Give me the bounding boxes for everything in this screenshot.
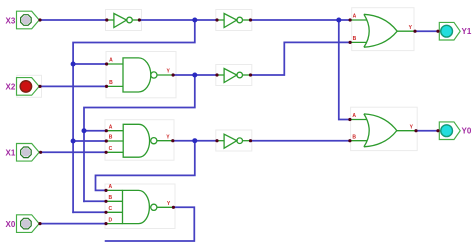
pin dot NAND2 B (105, 139, 108, 142)
wire NAND2 output to NOT4 input through node J4 (173, 140, 217, 142)
wire node J1 down-loop to vertical V1 (73, 20, 195, 64)
pin dot OR1 B (349, 41, 352, 44)
pin dot NAND3 C (104, 211, 107, 214)
wire V1 branch to NAND3 input C (73, 211, 106, 213)
svg-text:Y1: Y1 (462, 27, 472, 36)
wire NAND3 output loop down-left (106, 207, 195, 241)
wire X0 to NAND3 input D (40, 223, 106, 225)
nand gate NAND2 (3-input) (106, 124, 173, 157)
svg-text:C: C (109, 146, 113, 152)
svg-text:B: B (109, 80, 113, 86)
pin dot NAND3 B (104, 200, 107, 203)
wire vertical V2 (NAND1 signal distribution) (83, 131, 85, 202)
pin dot X3 out (38, 18, 41, 21)
node J3 (336, 18, 341, 23)
pin dot Y1 in (436, 30, 439, 33)
gate bounding box NAND2 (105, 120, 174, 161)
wire V1 branch to NAND2 input B (73, 140, 106, 142)
switch bounding box X2 (17, 75, 42, 97)
inverter NOT2 (217, 14, 251, 28)
pin dot X0 out (38, 222, 41, 225)
gate bounding box NAND3 (105, 184, 175, 229)
svg-text:B: B (353, 36, 357, 42)
svg-text:A: A (353, 14, 357, 20)
wire vertical V1 (NOT1 signal distribution) (72, 64, 74, 212)
svg-text:X1: X1 (6, 149, 16, 158)
svg-text:B: B (108, 195, 112, 201)
pin dot NOT1 in (105, 18, 108, 21)
nand gate NAND3 (4-input) (106, 190, 173, 223)
svg-text:B: B (352, 134, 356, 140)
led Y0 (output) (439, 122, 472, 140)
wire NAND1 output to NOT3 input through node J2 (173, 74, 217, 76)
pin dot OR1 Y (413, 30, 416, 33)
pin dot NOT2 out (249, 18, 252, 21)
wire OR2 output to Y0 (416, 130, 438, 132)
gate bounding box OR2 (351, 107, 418, 150)
node J1 (192, 18, 197, 23)
svg-text:X3: X3 (6, 16, 16, 25)
node J2 (192, 73, 197, 78)
svg-text:A: A (352, 113, 356, 119)
pin dot NAND3 Y (172, 206, 175, 209)
pin dot NAND3 D (104, 222, 107, 225)
svg-text:A: A (108, 184, 112, 190)
gate bounding box NOT3 (216, 65, 252, 86)
pin dot NAND2 Y (171, 139, 174, 142)
gate bounding box NOT2 (216, 10, 252, 31)
pin dot NAND1 Y (172, 73, 175, 76)
wire V2 branch to NAND3 input B (84, 200, 106, 202)
wire V2 branch to NAND2 input A (84, 130, 106, 132)
pin dot NOT1 out (138, 18, 141, 21)
svg-text:X0: X0 (6, 220, 16, 229)
pin dot NAND2 A (105, 129, 108, 132)
svg-text:Y0: Y0 (462, 127, 472, 136)
wire NOT3 output up to OR1 input B (251, 42, 351, 75)
inverter NOT3 (217, 69, 251, 83)
pin dot NAND3 A (104, 189, 107, 192)
pin dot X1 out (39, 151, 42, 154)
switch X3 (input, off) (6, 11, 40, 29)
pin dot NOT4 out (249, 139, 252, 142)
gate bounding box NAND1 (106, 52, 176, 98)
node V1-A junction (71, 62, 76, 67)
inverter NOT4 (217, 134, 251, 148)
inverter NOT1 (107, 14, 140, 28)
svg-text:A: A (109, 124, 113, 130)
svg-text:B: B (109, 135, 113, 141)
gate bounding box NOT4 (216, 130, 252, 151)
svg-text:C: C (108, 206, 112, 212)
wire V1 branch to NAND1 input A (73, 63, 107, 65)
svg-text:A: A (109, 58, 113, 64)
pin dot OR2 Y (414, 129, 417, 132)
wire OR1 output to Y1 (415, 30, 438, 32)
pin dot NOT2 in (215, 18, 218, 21)
pin dot NOT4 in (215, 139, 218, 142)
node V1-B junction (71, 139, 76, 144)
svg-text:D: D (108, 217, 112, 223)
or gate OR2 (350, 114, 416, 147)
nand gate NAND1 (2-input) (107, 58, 174, 92)
switch X0 (input, off) (6, 215, 40, 233)
pin dot OR2 B (348, 139, 351, 142)
svg-text:X2: X2 (6, 83, 16, 92)
wire X1 to NAND2 input C (41, 151, 107, 153)
pin dot OR1 A (349, 18, 352, 21)
pin dot NAND1 B (105, 85, 108, 88)
switch X2 (input, on) (6, 78, 40, 96)
pin dot NOT3 out (249, 73, 252, 76)
or gate OR1 (350, 14, 415, 47)
node J4 (192, 138, 197, 143)
gate bounding box OR1 (352, 8, 414, 51)
wire node J4 down-loop to NAND3 input A (96, 141, 195, 191)
led Y1 (output) (439, 22, 472, 40)
pin dot OR2 A (348, 118, 351, 121)
pin dot NOT3 in (215, 73, 218, 76)
wire NOT4 output to OR2 input B (251, 140, 350, 142)
switch X1 (input, off) (6, 144, 40, 162)
pin dot NAND1 A (105, 62, 108, 65)
wire NOT2 output to node J3 to OR1 input A (251, 19, 351, 21)
wire X3 to NOT1 input (40, 19, 107, 21)
wire NOT1 output to NOT2 input through node J1 (139, 19, 217, 21)
wire node J3 down to OR2 input A (339, 20, 350, 120)
gate bounding box NOT1 (106, 10, 142, 31)
node V2-A junction (82, 128, 87, 133)
pin dot Y0 in (436, 129, 439, 132)
wire X2 to NAND1 input B (40, 85, 107, 87)
wire node J2 down-loop to vertical V2 (84, 75, 195, 131)
pin dot NAND2 C (105, 151, 108, 154)
pin dot X2 out (38, 85, 41, 88)
